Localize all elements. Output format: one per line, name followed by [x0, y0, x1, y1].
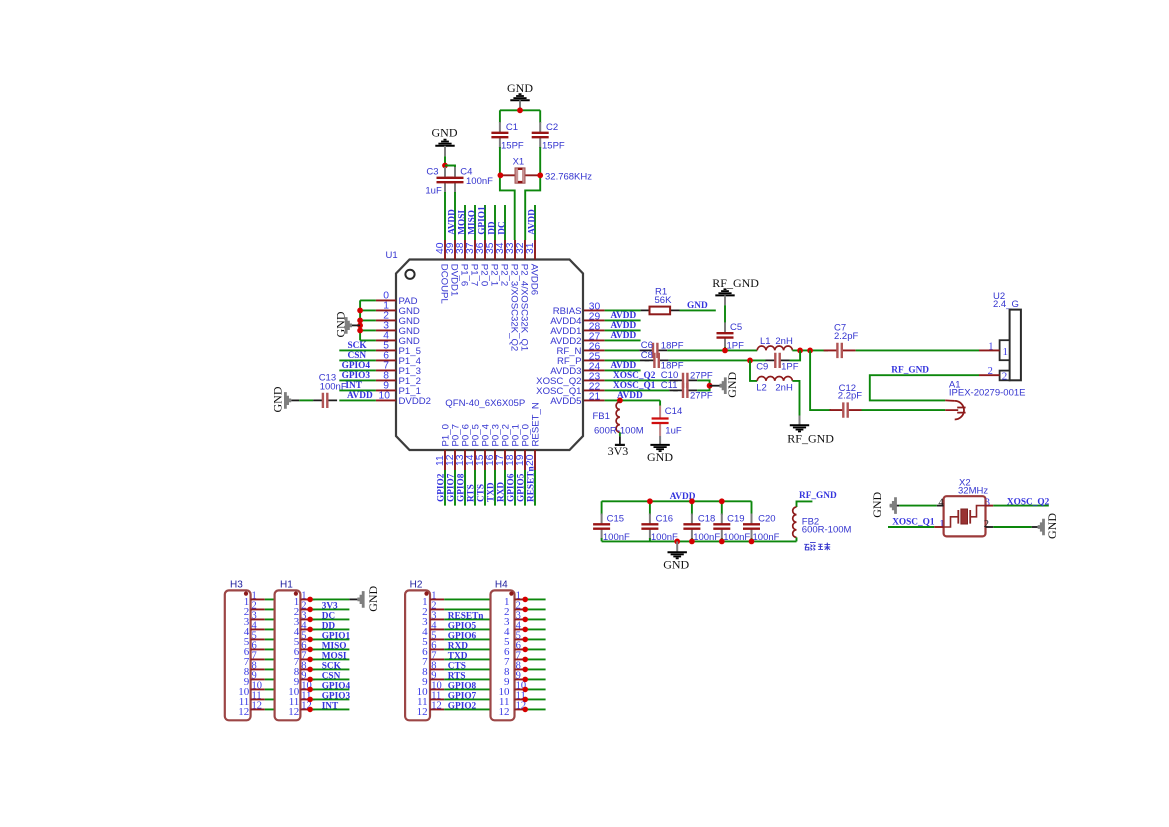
wire pin29	[605, 319, 641, 321]
svg-text:2.2pF: 2.2pF	[838, 391, 862, 402]
wire bottom pins 11-20	[445, 470, 535, 506]
wire H1 pin1 to GND	[310, 598, 349, 600]
wire pin7	[339, 369, 376, 371]
svg-text:GND: GND	[507, 81, 533, 95]
svg-text:RTS: RTS	[448, 672, 466, 682]
capacitor C19	[713, 514, 730, 540]
svg-text:DVDD1: DVDD1	[449, 264, 460, 297]
svg-text:GND: GND	[366, 585, 380, 611]
svg-text:RXD: RXD	[448, 642, 468, 652]
wire C11 out	[697, 386, 709, 391]
svg-text:RTS: RTS	[467, 484, 477, 502]
wire GND to C3	[444, 156, 446, 165]
svg-text:15PF: 15PF	[542, 141, 565, 152]
svg-text:15PF: 15PF	[501, 141, 524, 152]
svg-text:AVDD: AVDD	[611, 311, 637, 321]
svg-text:P2_2: P2_2	[499, 264, 510, 286]
capacitor C6	[643, 343, 667, 358]
svg-text:RESETn: RESETn	[527, 466, 537, 502]
wire FB2 top	[797, 501, 813, 507]
svg-text:DD: DD	[487, 221, 497, 235]
power RF_GND (top)	[712, 276, 759, 305]
inductor L1 2nH	[757, 346, 792, 350]
op-amp U1 body QFN-40_6X6X05P	[386, 250, 584, 450]
power GND (X2 pin4)	[870, 491, 897, 517]
svg-text:QFN-40_6X6X05P: QFN-40_6X6X05P	[445, 398, 525, 409]
wire C1 top	[499, 110, 501, 123]
capacitor C5	[717, 322, 734, 348]
capacitor C1	[491, 122, 508, 148]
svg-text:GND: GND	[687, 301, 708, 311]
svg-text:21: 21	[589, 391, 601, 402]
U1 bottom pin names	[440, 402, 541, 446]
node H4 pin5	[522, 637, 528, 643]
svg-text:CSN: CSN	[322, 672, 341, 682]
svg-text:P2_4/XOSC32K_Q1: P2_4/XOSC32K_Q1	[519, 264, 530, 351]
svg-text:32.768KHz: 32.768KHz	[545, 171, 592, 182]
power GND (C3)	[432, 125, 458, 156]
node H1 pin4	[307, 627, 313, 633]
power GND (C14)	[647, 445, 673, 464]
svg-text:GPIO1: GPIO1	[477, 206, 487, 235]
node pin1	[357, 308, 363, 314]
svg-text:GPIO5: GPIO5	[517, 473, 527, 502]
svg-text:C8: C8	[641, 350, 653, 361]
capacitor C14 1uF	[652, 406, 683, 445]
svg-text:TXD: TXD	[448, 652, 468, 662]
svg-text:31: 31	[525, 242, 536, 254]
wire pin40	[444, 192, 446, 240]
svg-text:12: 12	[288, 706, 299, 718]
svg-text:C14: C14	[665, 406, 682, 417]
svg-text:2.2pF: 2.2pF	[834, 331, 858, 342]
resistor R1	[650, 307, 671, 315]
svg-text:1uF: 1uF	[425, 186, 442, 197]
svg-text:RF_GND: RF_GND	[712, 276, 759, 290]
svg-text:RESET_N: RESET_N	[530, 402, 541, 446]
node top rail junction	[517, 107, 523, 113]
node H1 pin9	[307, 677, 313, 683]
svg-text:12: 12	[499, 706, 510, 718]
node H4 pin2	[522, 607, 528, 613]
wire pin21	[605, 399, 661, 401]
inductor L2 2nH	[757, 377, 792, 381]
node H4 pin6	[522, 647, 528, 653]
svg-text:CTS: CTS	[477, 484, 487, 502]
wire C1 bottom leg	[500, 147, 515, 240]
node H4 pin7	[522, 657, 528, 663]
node pin3	[357, 328, 363, 334]
svg-text:GND: GND	[870, 491, 884, 517]
wire C13 to GND	[299, 399, 313, 401]
svg-text:GND: GND	[271, 386, 285, 412]
svg-text:SCK: SCK	[348, 341, 368, 351]
svg-text:10: 10	[379, 391, 391, 402]
svg-text:XOSC_Q2: XOSC_Q2	[613, 371, 656, 381]
wire X2 pin4 to GND	[937, 505, 944, 507]
wire C5 bottom	[724, 347, 726, 350]
svg-text:GND: GND	[1045, 513, 1059, 539]
node rail C16	[647, 498, 653, 504]
node H1 pin2	[307, 607, 313, 613]
svg-text:XOSC_Q1: XOSC_Q1	[892, 518, 935, 528]
svg-text:1PF: 1PF	[781, 362, 799, 373]
svg-text:C15: C15	[607, 514, 624, 525]
U1 right pin names	[536, 306, 582, 407]
svg-text:600R-100M: 600R-100M	[802, 525, 852, 536]
wire pin6	[339, 359, 376, 361]
wire FB1 to 3V3	[619, 432, 621, 436]
node H1 pin6	[307, 647, 313, 653]
svg-text:GPIO3: GPIO3	[322, 692, 351, 702]
wire C10 out	[697, 380, 709, 385]
node H1 pin10	[307, 687, 313, 693]
svg-text:RF_GND: RF_GND	[799, 491, 837, 501]
wire pin10	[339, 399, 376, 401]
ferrite bead FB1 600R-100M	[616, 402, 620, 432]
wire L1 out	[792, 349, 828, 351]
svg-text:C9: C9	[756, 362, 768, 373]
svg-text:H1: H1	[280, 580, 293, 591]
svg-text:XOSC_Q1: XOSC_Q1	[613, 381, 656, 391]
svg-text:GPIO1: GPIO1	[322, 632, 351, 642]
node X1 right	[537, 172, 543, 178]
svg-text:27PF: 27PF	[690, 390, 713, 401]
node rail C19 bottom	[719, 539, 725, 545]
connector H4	[491, 580, 527, 721]
svg-text:RXD: RXD	[497, 482, 507, 502]
svg-text:1: 1	[988, 341, 993, 352]
U2 pin1 lead	[979, 349, 1000, 351]
svg-text:DCOUPL: DCOUPL	[439, 264, 450, 305]
wire C9 up to node	[790, 350, 801, 360]
power RF_GND (L2)	[787, 425, 834, 445]
svg-text:2.4_G: 2.4_G	[993, 299, 1019, 310]
capacitor C3	[437, 167, 454, 193]
svg-text:GPIO4: GPIO4	[342, 361, 371, 371]
wire RF_P down to L2	[750, 360, 757, 381]
wire C6 to L1 node	[667, 349, 757, 351]
svg-text:L2: L2	[756, 382, 767, 393]
svg-text:GPIO6: GPIO6	[448, 632, 477, 642]
capacitor C2	[532, 122, 549, 148]
wire GND bus pins0-4	[360, 300, 376, 340]
svg-text:GPIO7: GPIO7	[447, 473, 457, 502]
node H1 pin11	[307, 697, 313, 703]
capacitor C4	[447, 167, 464, 193]
svg-text:XOSC_Q2: XOSC_Q2	[1007, 498, 1050, 508]
wire C2 bottom leg	[525, 147, 540, 240]
node pin2	[357, 318, 363, 324]
node H1 pin1	[307, 597, 313, 603]
svg-text:MISO: MISO	[322, 642, 347, 652]
svg-text:32MHz: 32MHz	[958, 486, 988, 497]
svg-text:U1: U1	[386, 250, 398, 261]
node rail C18 bottom	[689, 539, 695, 545]
svg-text:GND: GND	[334, 311, 348, 337]
node rail C18	[689, 498, 695, 504]
value label cizhu	[804, 543, 830, 551]
svg-text:MOSI: MOSI	[322, 652, 347, 662]
svg-text:GND: GND	[647, 450, 673, 464]
wire FB2 bottom	[796, 537, 798, 541]
svg-text:AVDD6: AVDD6	[529, 264, 540, 295]
wire pin26 to C6	[605, 349, 640, 351]
node H1 pin3	[307, 617, 313, 623]
wire C8 to C9 node	[669, 359, 766, 361]
node gnd tap	[357, 323, 363, 329]
crystal X2 32MHz	[944, 477, 989, 536]
svg-text:AVDD: AVDD	[611, 331, 637, 341]
svg-text:56K: 56K	[655, 295, 673, 306]
power GND (rail)	[663, 541, 689, 571]
svg-text:DD: DD	[322, 622, 336, 632]
svg-text:GPIO7: GPIO7	[448, 692, 477, 702]
svg-text:GND: GND	[432, 125, 458, 139]
svg-text:12: 12	[417, 706, 428, 718]
svg-text:12: 12	[238, 706, 249, 718]
node C3/C4 junction	[442, 163, 448, 169]
svg-text:TXD: TXD	[487, 482, 497, 502]
wire C12 to A1	[862, 409, 946, 411]
node H4 pin11	[522, 697, 528, 703]
node H1 pin5	[307, 637, 313, 643]
svg-text:FB1: FB1	[593, 411, 610, 422]
svg-text:3V3: 3V3	[608, 444, 629, 458]
svg-text:3V3: 3V3	[322, 602, 338, 612]
svg-text:GPIO6: GPIO6	[507, 473, 517, 502]
wire H4 right	[525, 599, 545, 709]
wire top pins 38-34,31	[465, 205, 535, 240]
svg-text:C2: C2	[546, 122, 558, 133]
wire RF_GND net (U2 pin2)	[870, 375, 979, 400]
svg-text:1uF: 1uF	[665, 426, 682, 437]
capacitor C18	[683, 514, 700, 540]
node H1 pin7	[307, 657, 313, 663]
svg-text:2: 2	[1002, 371, 1008, 383]
svg-text:2nH: 2nH	[775, 382, 793, 393]
node H4 pin9	[522, 677, 528, 683]
wire C7 to U2 pin1	[856, 349, 979, 351]
svg-text:P2_0: P2_0	[479, 264, 490, 286]
U1 top pin stubs 40-31	[445, 240, 535, 260]
svg-text:AVDD: AVDD	[611, 361, 637, 371]
wire pin28	[605, 329, 641, 331]
power GND (top)	[507, 81, 533, 110]
node H4 pin4	[522, 627, 528, 633]
node rail C19	[719, 498, 725, 504]
capacitor C11	[673, 383, 697, 398]
svg-text:GPIO8: GPIO8	[448, 682, 477, 692]
wire pin8	[339, 379, 376, 381]
node H4 pin1	[522, 597, 528, 603]
svg-text:20: 20	[525, 454, 536, 466]
wire L2 out down	[792, 381, 799, 416]
wire X2 pin1 XOSC_Q1	[934, 526, 943, 528]
wire elbow to C4	[445, 166, 455, 169]
power GND (X2 pin2)	[1038, 513, 1059, 539]
U1 left pin names	[399, 296, 432, 407]
wire top rail	[500, 109, 540, 111]
wire pin25 to C8	[605, 359, 640, 361]
svg-text:DC: DC	[497, 221, 507, 234]
connector H3	[225, 580, 265, 721]
svg-text:DVDD2: DVDD2	[399, 396, 432, 407]
power GND (H1 pin1)	[357, 585, 379, 611]
wire pin27	[605, 339, 641, 341]
capacitor C13	[313, 393, 337, 408]
svg-text:1: 1	[939, 519, 944, 530]
svg-text:RESETn: RESETn	[448, 612, 484, 622]
U1 top pin names	[439, 264, 540, 351]
svg-text:C20: C20	[758, 514, 775, 525]
wire X2 pin2 to GND	[986, 526, 994, 528]
svg-text:AVDD5: AVDD5	[550, 396, 581, 407]
wire pin39	[454, 192, 456, 240]
svg-text:GPIO5: GPIO5	[448, 622, 477, 632]
svg-text:600R-100M: 600R-100M	[594, 426, 644, 437]
svg-text:GND: GND	[725, 371, 739, 397]
node H4 pin12	[522, 707, 528, 713]
svg-text:GPIO3: GPIO3	[342, 371, 371, 381]
wire join to GND	[710, 385, 720, 387]
svg-text:3: 3	[985, 497, 990, 508]
svg-text:1: 1	[1003, 346, 1009, 358]
capacitor C15	[593, 514, 610, 540]
svg-text:P1_7: P1_7	[469, 264, 480, 286]
svg-text:H3: H3	[230, 580, 243, 591]
antenna U2 2.4_G	[993, 291, 1021, 383]
wire gnd tap	[352, 324, 360, 326]
wire RF_GND to C5	[724, 305, 726, 323]
svg-text:C5: C5	[730, 322, 742, 333]
node rail C20 bottom	[749, 539, 755, 545]
svg-text:AVDD: AVDD	[347, 391, 373, 401]
wire pin5	[339, 349, 376, 351]
svg-text:C19: C19	[727, 514, 744, 525]
svg-text:MOSI: MOSI	[457, 210, 467, 235]
svg-text:INT: INT	[345, 381, 362, 391]
svg-text:C11: C11	[661, 380, 678, 391]
wire GND bottom rail	[602, 538, 797, 541]
capacitor C10	[673, 373, 697, 388]
svg-text:MISO: MISO	[467, 210, 477, 235]
svg-text:100nF: 100nF	[466, 176, 493, 187]
svg-text:CTS: CTS	[448, 662, 466, 672]
power 3V3	[608, 444, 629, 458]
capacitor C12	[830, 402, 862, 417]
capacitor C8	[645, 353, 669, 368]
crystal X1	[500, 156, 592, 183]
wire C2 top	[539, 110, 541, 123]
svg-text:DC: DC	[322, 612, 335, 622]
node RF_P branch	[747, 358, 753, 364]
wire H1 rows 2-12	[310, 609, 349, 709]
svg-text:L1: L1	[760, 336, 771, 347]
power GND (C10/C11)	[720, 371, 739, 397]
node H1 pin8	[307, 667, 313, 673]
node H1 pin12	[307, 707, 313, 713]
svg-text:C16: C16	[656, 514, 673, 525]
svg-text:RF_GND: RF_GND	[891, 366, 929, 376]
ferrite bead FB2 600R-100M	[793, 507, 797, 537]
wire H3 to H1	[265, 599, 275, 709]
svg-text:CSN: CSN	[348, 351, 367, 361]
node H4 pin3	[522, 617, 528, 623]
node X1 left	[498, 172, 504, 178]
svg-text:2: 2	[988, 366, 993, 377]
U1 right pin numbers	[589, 301, 601, 402]
wire pin24	[605, 369, 641, 371]
wire pin21 elbow to C14	[659, 400, 661, 406]
connector H2	[405, 580, 444, 721]
node C10/C11 join	[707, 383, 713, 389]
svg-text:4: 4	[938, 497, 944, 508]
svg-text:GPIO2: GPIO2	[448, 702, 477, 712]
power GND (C13)	[271, 386, 292, 412]
wire H2 to H4	[444, 599, 490, 709]
U1 right pin stubs 30-21	[584, 310, 605, 400]
svg-text:GPIO4: GPIO4	[322, 682, 351, 692]
svg-text:2: 2	[984, 519, 989, 530]
U1 top pin numbers	[435, 242, 536, 254]
svg-text:P2_3/XOSC32K_Q2: P2_3/XOSC32K_Q2	[509, 264, 520, 351]
svg-text:H2: H2	[410, 580, 423, 591]
wire pin9	[339, 389, 376, 391]
svg-text:AVDD: AVDD	[447, 209, 457, 235]
svg-text:GPIO2: GPIO2	[437, 473, 447, 502]
svg-text:GPIO8: GPIO8	[457, 473, 467, 502]
svg-text:RF_GND: RF_GND	[787, 432, 834, 446]
node rail gnd tap	[674, 539, 680, 545]
wire pin22 XOSC_Q1	[605, 389, 670, 391]
svg-text:X1: X1	[513, 156, 525, 167]
svg-text:P2_1: P2_1	[489, 264, 500, 286]
U2 pin2 lead	[979, 374, 1000, 376]
svg-text:C18: C18	[698, 514, 715, 525]
svg-text:AVDD: AVDD	[611, 321, 637, 331]
wire X2 pin3 XOSC_Q2	[986, 505, 994, 507]
U1 left pin numbers	[379, 291, 391, 402]
svg-text:C3: C3	[426, 166, 438, 177]
capacitor C20	[743, 514, 760, 540]
U1 bottom pin stubs 11-20	[445, 450, 535, 470]
node FB1 tap	[617, 398, 623, 404]
capacitor C16	[641, 514, 658, 540]
connector H1	[275, 580, 315, 721]
U1 bottom pin numbers	[435, 454, 536, 466]
capacitor C7	[824, 343, 856, 358]
svg-text:C1: C1	[506, 122, 518, 133]
svg-text:AVDD: AVDD	[527, 209, 537, 235]
node L1 out a	[797, 348, 803, 354]
wire AVDD top rail	[602, 501, 752, 515]
svg-text:GND: GND	[663, 557, 689, 571]
svg-text:H4: H4	[495, 580, 508, 591]
node H4 pin10	[522, 687, 528, 693]
svg-text:P1_6: P1_6	[459, 264, 470, 286]
node L1 out b	[807, 348, 813, 354]
wire C12 branch	[810, 350, 831, 410]
svg-text:INT: INT	[322, 702, 339, 712]
power GND (chip left)	[334, 311, 352, 337]
U1 left pin stubs 0-10	[376, 300, 396, 400]
capacitor C9	[766, 353, 790, 368]
node C5 junction	[722, 348, 728, 354]
connector A1 IPEX-20279-001E	[945, 379, 1025, 419]
svg-text:SCK: SCK	[322, 662, 342, 672]
node H4 pin8	[522, 667, 528, 673]
